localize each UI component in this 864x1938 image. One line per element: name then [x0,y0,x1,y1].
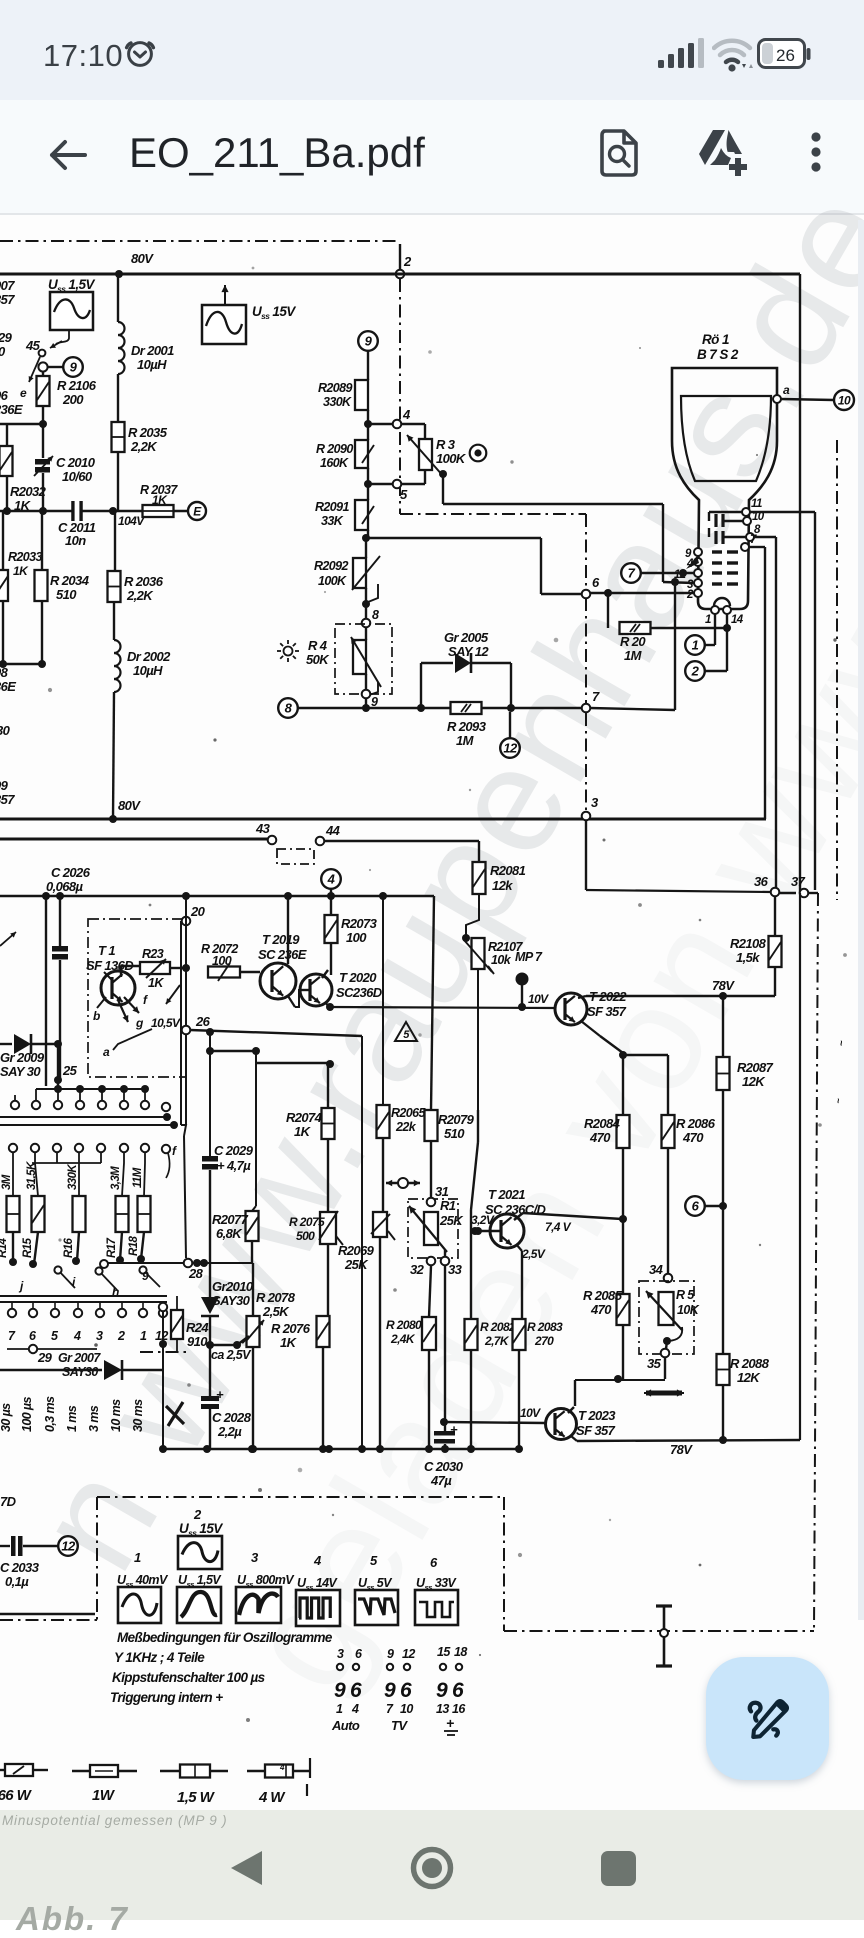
svg-text:36E: 36E [0,679,16,694]
svg-text:Gr 2009: Gr 2009 [0,1050,45,1065]
svg-text:0,1µ: 0,1µ [5,1574,29,1589]
svg-text:R2107: R2107 [488,940,523,954]
svg-text:470: 470 [590,1302,612,1317]
fab annotate button [706,1657,829,1780]
svg-text:+ 4,7µ: + 4,7µ [217,1158,251,1173]
resistor R2080 [429,1266,431,1317]
svg-text:R2108: R2108 [730,936,767,951]
svg-text:10,5V: 10,5V [151,1016,181,1030]
wire ca 2.5V [210,1344,237,1346]
diode Gr2005 [420,663,422,708]
svg-text:R 2093: R 2093 [447,719,487,734]
power legend 4W [247,1770,265,1772]
svg-text:Gr 2005: Gr 2005 [444,630,489,645]
svg-text:9: 9 [387,1647,394,1661]
svg-text:25K: 25K [439,1213,464,1228]
svg-text:T 1: T 1 [98,943,115,958]
svg-text:7: 7 [386,1702,394,1716]
svg-text:R 2085: R 2085 [583,1288,623,1303]
wire R2107 col down [474,1227,482,1235]
node 7 [582,704,591,713]
svg-text:43: 43 [255,821,271,836]
terminal circle 10 [834,390,854,410]
node 29 [7,1348,97,1350]
wire vertical pair [180,921,182,1125]
wire pin12 from circle7 [621,563,641,583]
svg-text:11M: 11M [132,1167,144,1188]
svg-text:7D: 7D [0,1494,17,1509]
svg-text:5: 5 [400,487,408,502]
svg-text:10/60: 10/60 [62,469,93,484]
svg-text:1: 1 [336,1702,343,1716]
svg-text:330K: 330K [67,1164,79,1190]
resistor R18 [144,1163,145,1196]
svg-text:SAY30: SAY30 [212,1293,251,1308]
heater arc [714,598,730,606]
svg-text:10µH: 10µH [133,663,163,678]
svg-text:10: 10 [838,393,851,407]
node 26 [182,1026,191,1035]
wire anode to 10 [781,399,834,400]
resistor R2106 [42,371,44,376]
svg-text:2,7K: 2,7K [484,1334,510,1348]
wifi icon [712,38,756,72]
svg-text:12K: 12K [737,1370,761,1385]
wire node28 rail [104,1262,252,1264]
wire node4 to R3 [401,423,425,425]
wire node26 run to x362 [190,1030,362,1036]
svg-text:47µ: 47µ [430,1473,452,1488]
svg-text:R2073: R2073 [341,916,378,931]
wire node37 stub and dash-dot down [808,892,818,894]
svg-text:j: j [18,1279,24,1293]
svg-text:R 2082: R 2082 [480,1320,516,1334]
svg-text:1: 1 [134,1550,141,1565]
capacitor tube c2 [708,528,710,537]
crt pin 11 [742,508,750,516]
svg-text:R2081: R2081 [490,863,526,878]
svg-text:10n: 10n [65,533,86,548]
potentiometer R4 with dashed box [335,624,392,694]
power legend 0.66W [0,1769,6,1771]
svg-text:29: 29 [37,1350,53,1365]
svg-text:10V: 10V [520,1406,541,1420]
overflow menu icon [804,130,828,176]
svg-text:30 ms: 30 ms [131,1399,145,1432]
wire node2 riser [399,244,401,273]
svg-text:C 2010: C 2010 [56,455,96,470]
svg-text:C 2033: C 2033 [0,1560,40,1575]
scrollbar sliver [858,220,864,1620]
svg-text:3: 3 [337,1647,344,1661]
svg-text:Dr 2002: Dr 2002 [127,649,171,664]
svg-text:f: f [172,1144,177,1158]
capacitor C2030 [444,1265,446,1422]
wire 44 to R2081 [324,840,479,842]
X mark [166,1406,184,1424]
node 37 [779,892,796,894]
svg-text:+: + [450,1422,458,1437]
svg-text:50K: 50K [306,652,330,667]
node 6 [582,590,591,599]
svg-text:32: 32 [410,1262,425,1277]
svg-text:357: 357 [0,292,15,307]
scan speckles [252,267,255,270]
svg-text:10k: 10k [491,953,512,967]
svg-text:R2084: R2084 [584,1116,621,1131]
node 20 [182,917,191,926]
wire node37 down to 78V [799,893,801,1440]
terminal circle 9b [63,357,83,377]
capacitor C2028 [209,1345,211,1396]
wire corner x434 down [431,896,434,1110]
title [129,129,425,177]
node 43 [268,836,277,845]
svg-text:3 ms: 3 ms [87,1405,101,1432]
svg-text:36: 36 [754,874,769,889]
svg-text:SC236D: SC236D [336,985,383,1000]
alarm icon [123,36,157,70]
svg-text:4: 4 [73,1329,81,1343]
svg-text:25: 25 [62,1063,78,1078]
wire to node 4 [368,423,392,425]
wire dash-dot frame top [0,240,396,242]
node 4 [393,420,402,429]
svg-text:Uss 15V: Uss 15V [252,304,296,321]
svg-text:R 5: R 5 [676,1288,695,1302]
svg-text:34: 34 [649,1262,664,1277]
svg-text:R17: R17 [106,1237,118,1258]
svg-text:2,4K: 2,4K [390,1332,416,1346]
trimmer marker [386,1182,403,1184]
svg-text:R16: R16 [63,1237,75,1258]
svg-text:2: 2 [117,1329,125,1343]
svg-text:09: 09 [0,778,9,793]
svg-text:R2087: R2087 [737,1060,774,1075]
svg-text:44: 44 [325,823,341,838]
svg-text:9: 9 [384,1679,396,1702]
svg-text:6: 6 [452,1679,464,1702]
svg-text:12: 12 [402,1647,415,1661]
svg-text:C 2029: C 2029 [214,1143,254,1158]
wire bottom bus [160,1448,522,1450]
svg-text:33: 33 [448,1262,463,1277]
svg-text:5: 5 [51,1329,59,1343]
wire [367,468,369,484]
svg-text:1,5 W: 1,5 W [177,1789,216,1806]
svg-text:1M: 1M [624,648,643,663]
svg-text:+: + [446,1715,454,1731]
svg-text:20: 20 [190,904,206,919]
svg-text:R2074: R2074 [286,1110,323,1125]
svg-text:Dr 2001: Dr 2001 [131,343,174,358]
svg-text:2: 2 [403,254,412,269]
svg-text:14: 14 [731,614,744,626]
svg-text:80V: 80V [131,251,154,266]
svg-text:6: 6 [29,1329,37,1343]
svg-text:C 2030: C 2030 [424,1459,464,1474]
connector symbol bottom right [663,1607,666,1666]
svg-text:a: a [783,383,790,397]
svg-text:Meßbedingungen für Oszillogra: Meßbedingungen für Oszillogramme [117,1630,333,1645]
svg-text:Gr2010: Gr2010 [212,1279,254,1294]
node 32 [427,1257,436,1266]
svg-text:0: 0 [0,344,6,359]
node 3 [582,812,591,821]
svg-text:b: b [93,1009,100,1023]
node 5 [368,483,392,485]
crt screen inner [681,396,771,481]
svg-text:Auto: Auto [331,1718,360,1733]
wire [0,423,43,425]
svg-text:270: 270 [534,1334,554,1348]
svg-text:10K: 10K [677,1303,700,1317]
svg-text:35: 35 [647,1356,662,1371]
wire R2078 wiper [242,1336,249,1343]
svg-text:T 2020: T 2020 [339,970,377,985]
wire mid rail y896 [0,895,434,898]
contact row 2 [9,1144,17,1152]
svg-text:30 µs: 30 µs [0,1403,13,1432]
wire 78V rail lower [577,1440,800,1441]
svg-text:R2069: R2069 [338,1243,375,1258]
clock text [43,38,123,74]
svg-text:6: 6 [400,1679,412,1702]
potentiometer R2032 [6,424,8,446]
svg-text:100 µs: 100 µs [20,1396,34,1432]
wire pin8 down [754,536,776,538]
svg-text:25K: 25K [344,1257,369,1272]
svg-text:4: 4 [351,1702,359,1716]
svg-text:+: + [216,1387,224,1402]
wire dash-dot screen boundary x586 [585,598,587,703]
svg-text:10 ms: 10 ms [109,1399,123,1432]
potentiometer R2075 [327,1063,329,1108]
svg-text:1: 1 [140,1329,147,1343]
resistor R2077 [255,1051,257,1206]
svg-text:1: 1 [705,614,711,626]
svg-text:37: 37 [791,874,806,889]
svg-text:T 2021: T 2021 [488,1187,525,1202]
svg-text:33K: 33K [321,514,344,528]
wire x383 column [382,896,384,1105]
inductor Dr2001 [117,274,119,322]
svg-text:3,2V: 3,2V [471,1213,495,1227]
potentiometer R2069 [373,1212,387,1237]
terminal circle 1 [685,635,705,655]
node 9 [362,690,371,699]
svg-text:~: ~ [835,1040,846,1046]
svg-text:R 2106: R 2106 [57,378,97,393]
wire dash-dot bottom [504,1630,814,1632]
svg-text:78V: 78V [712,978,735,993]
svg-text:R15: R15 [22,1237,34,1258]
svg-text:SAY30: SAY30 [62,1365,98,1379]
potentiometer R2108 [774,896,776,936]
svg-text:12: 12 [503,741,518,756]
svg-text:R 2090: R 2090 [316,442,353,456]
switch levers [58,1270,75,1288]
svg-text:R 2088: R 2088 [730,1356,770,1371]
svg-text:SF 357: SF 357 [587,1004,627,1019]
resistor R2084 [617,1115,630,1148]
crt anode node a [773,395,781,403]
resistor R2089 [355,380,368,410]
svg-text:R 2086: R 2086 [676,1116,716,1131]
find in page icon [598,129,640,177]
wire pins 1/14 to R20 junction [714,614,716,628]
svg-text:31,5K: 31,5K [26,1161,38,1190]
svg-text:330K: 330K [323,395,352,409]
svg-text:R2091: R2091 [315,500,349,514]
svg-text:22k: 22k [395,1120,417,1134]
resistor R2078 [252,1263,254,1316]
svg-text:12: 12 [61,1539,76,1554]
potentiometer R5 [659,1292,674,1325]
svg-text:100: 100 [346,930,367,945]
svg-text:8: 8 [372,608,379,622]
drive add icon [695,128,749,178]
svg-text:10V: 10V [528,992,549,1006]
resistor R2074 [322,1108,335,1139]
svg-text:R 2034: R 2034 [50,573,90,588]
svg-text:26: 26 [195,1014,211,1029]
svg-text:2,2K: 2,2K [126,588,154,603]
wire collector bus T2023 [575,1379,665,1381]
svg-text:T 2019: T 2019 [262,932,300,947]
resistor R2093 [451,702,482,714]
crt pin 1 [711,606,719,614]
crt pin 10 [743,517,751,525]
contact row 1 [36,1088,145,1090]
svg-text:,66 W: ,66 W [0,1787,33,1804]
potentiometer R1 [424,1212,438,1245]
terminal circle 9 [358,331,378,351]
wire [367,351,369,380]
wire x163 column [162,1307,164,1449]
svg-text:R14: R14 [0,1237,9,1258]
wire dash-dot outer right [836,440,838,900]
arrow mark left [0,932,16,946]
resistor R2073 [325,915,338,943]
wire pin11 right [750,511,815,513]
resistor R2085 [622,1219,624,1294]
svg-text:Y 1KHz ; 4 Teile: Y 1KHz ; 4 Teile [114,1650,205,1665]
crt pin 12 left [694,569,702,577]
svg-text:3,3M: 3,3M [110,1166,122,1190]
wire pin3 riser [674,582,676,710]
svg-text:1K: 1K [13,564,29,578]
nav back triangle [228,1849,264,1887]
capacitor tube c1 [709,511,742,513]
svg-text:R 2083: R 2083 [527,1320,563,1334]
signal bars icon [658,38,710,70]
resistor R16 [78,1163,80,1196]
svg-text:R 2076: R 2076 [271,1321,311,1336]
trimmer capacitor C2010 [42,424,44,458]
svg-text:200: 200 [62,392,84,407]
svg-text:236E: 236E [0,402,23,417]
crt pin 3 left [694,579,702,587]
resistor R14 [12,1163,14,1196]
svg-text:007: 007 [0,278,15,293]
wire 80V bottom rail [0,818,766,821]
resistor R15 [35,1163,38,1196]
coupling dashed box 43-44 [277,849,314,864]
wire right corner down to node 37 [799,274,801,893]
svg-text:6,8K: 6,8K [216,1226,243,1241]
node 31 [427,1198,436,1207]
contact circles numbered [8,1309,16,1317]
svg-text:Triggerung intern +: Triggerung intern + [110,1690,223,1705]
wire rail 43-44 [0,838,268,841]
svg-text:4: 4 [402,407,411,422]
resistor R2087 [722,996,724,1057]
svg-text:C 2028: C 2028 [212,1410,252,1425]
node 36 [585,820,587,890]
svg-text:R2077: R2077 [212,1212,249,1227]
wire node6 to tube pin2 [590,592,694,594]
resistor R2081 [473,862,486,894]
svg-text:2,5V: 2,5V [521,1247,546,1261]
crt pin 8 [746,533,754,541]
svg-text:9: 9 [334,1679,346,1702]
svg-text:357: 357 [0,792,15,807]
resistor R2035 [117,374,119,422]
nav bar [0,1810,864,1920]
svg-text:g: g [135,1016,144,1030]
svg-text:R 3: R 3 [436,437,456,452]
lamp symbol for R4 [277,640,299,662]
svg-text:Kippstufenschalter 100 µs: Kippstufenschalter 100 µs [112,1670,266,1685]
svg-text:2: 2 [193,1507,202,1522]
wire [0,1613,95,1615]
svg-text:T 2023: T 2023 [578,1408,616,1423]
potentiometer R3 [419,439,432,470]
terminal circle 12 [509,712,511,738]
svg-text:R2032: R2032 [10,484,47,499]
svg-text:SAY 30: SAY 30 [0,1064,41,1079]
wire emitter bus [623,1054,668,1056]
crt pin 7 [741,543,749,551]
wire junction to node 28 [181,1125,186,1136]
crt pin 2 left [694,589,702,597]
svg-text:C 2026: C 2026 [51,865,91,880]
svg-text:470: 470 [589,1130,611,1145]
svg-text:500: 500 [296,1229,315,1243]
svg-text:9: 9 [142,1269,149,1283]
svg-text:104V: 104V [118,514,145,528]
svg-text:1: 1 [692,638,699,653]
svg-text:160K: 160K [320,456,349,470]
svg-text:78V: 78V [670,1442,693,1457]
terminal circle 4b [321,869,341,889]
wire R3 wiper run [442,474,444,504]
svg-text:06: 06 [0,388,9,403]
wire main y708 [297,707,582,709]
resistor R2090 [367,424,369,440]
svg-text:Rö 1: Rö 1 [702,332,729,347]
capacitor C2011 [71,501,74,521]
svg-text:10: 10 [400,1702,413,1716]
svg-text:10µH: 10µH [137,357,167,372]
svg-text:100K: 100K [436,451,467,466]
wire x362 column [361,1036,363,1449]
svg-text:T 2022: T 2022 [589,989,627,1004]
svg-text:~: ~ [833,1098,843,1104]
dash-dot box R1 [408,1199,458,1258]
resistor R2079 [425,1110,438,1141]
